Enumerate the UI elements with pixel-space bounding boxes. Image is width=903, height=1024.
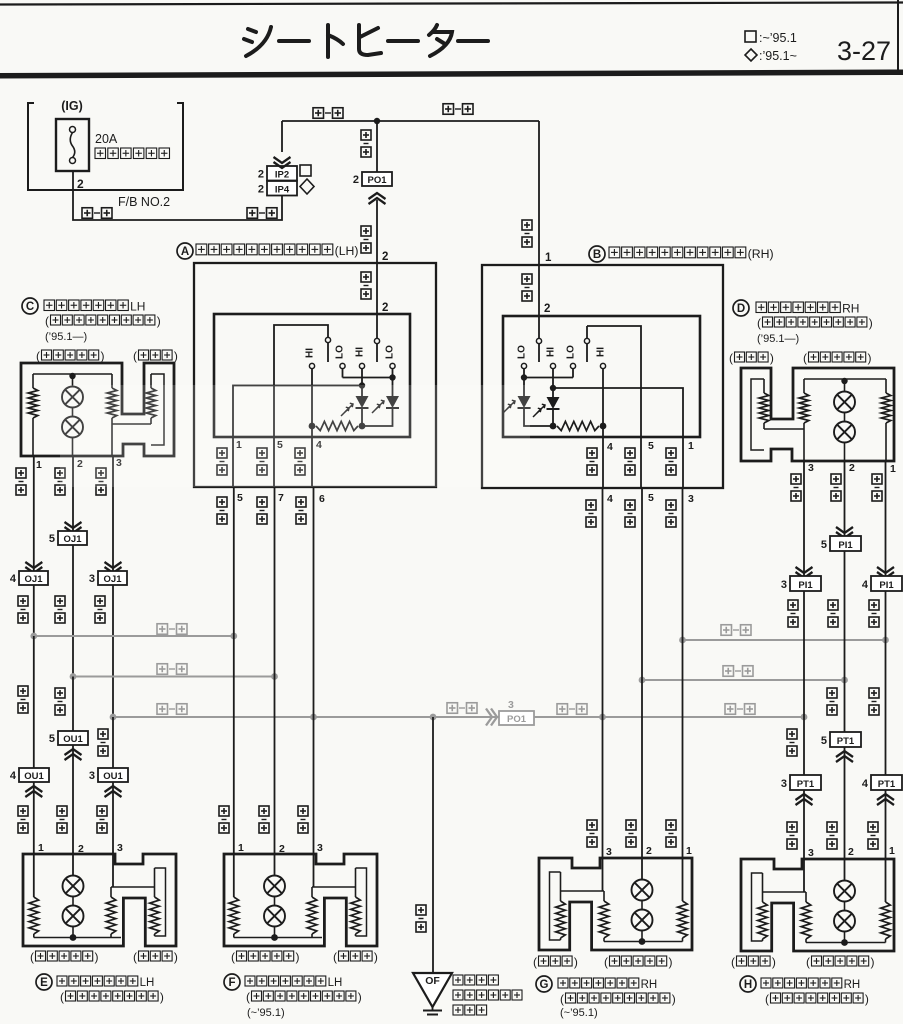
svg-text:3: 3: [781, 778, 787, 790]
heater C link wire: [112, 423, 151, 425]
junction: [841, 939, 848, 946]
arrow into PI1-4: [877, 567, 894, 573]
wire B pin1 gap: [682, 437, 684, 488]
svg-text:2: 2: [77, 177, 84, 191]
legend square ~'95.1: [745, 31, 756, 42]
wire col3 bus to OU1: [112, 717, 114, 768]
label LO rotated: [335, 345, 346, 359]
svg-text:(RH): (RH): [748, 247, 774, 261]
arrow into OJ1-4: [25, 562, 42, 568]
wire color label: [522, 274, 532, 284]
wire col2 to bus: [72, 545, 74, 677]
bottom wire: [34, 937, 121, 939]
wire D pin3 down: [803, 460, 805, 576]
connector PO1 top: [362, 172, 392, 186]
wire feed inside switch B: [538, 265, 540, 338]
wire col1 to bus: [33, 585, 35, 636]
lever pole2 B: [584, 338, 589, 343]
contact HI1: [309, 363, 314, 368]
arrow into PO1: [369, 193, 386, 199]
wire color label: [257, 497, 267, 507]
connector PO1 bus: [499, 711, 534, 725]
cushion left element: [603, 891, 605, 901]
wire LO link: [343, 377, 393, 379]
cushion left element: [33, 854, 35, 897]
back inner wall: [155, 868, 166, 936]
svg-text:4: 4: [862, 778, 869, 790]
arrow into PO1 bus: [486, 709, 492, 726]
cushion right element: [110, 887, 112, 897]
label heater G circled: [536, 976, 552, 992]
switch B outer box: [482, 265, 723, 488]
svg-text:PT1: PT1: [878, 779, 896, 790]
pin3 link wire: [561, 890, 605, 892]
svg-text:2: 2: [382, 251, 388, 263]
heater C back element: [150, 374, 152, 388]
resistor switch B: [550, 423, 557, 430]
contact HI2 B: [600, 363, 605, 368]
svg-text:4: 4: [10, 770, 17, 782]
contact HI1 B: [550, 363, 555, 368]
bus blue-black right: [683, 639, 886, 641]
svg-text:HI: HI: [355, 347, 366, 357]
heater C outline: [21, 363, 174, 456]
cushion right element: [682, 858, 684, 901]
wire color label: [666, 448, 676, 458]
bus label white-black 4: [725, 704, 736, 715]
svg-text:A: A: [181, 246, 189, 258]
svg-text:(: (: [765, 992, 769, 1006]
connector PI1 pin3: [790, 576, 821, 591]
wire col2 PI1 to bus: [844, 551, 846, 680]
wire LO link B: [524, 377, 573, 379]
connector IP2: [267, 166, 297, 181]
svg-text:(: (: [133, 950, 137, 964]
svg-text:LH: LH: [130, 300, 145, 314]
label LO rotated: [566, 345, 577, 359]
label HI rotated: [546, 347, 557, 357]
svg-text:(: (: [731, 955, 735, 969]
switch A inner box: [214, 314, 410, 437]
svg-text:(: (: [604, 955, 608, 969]
wire color label: [18, 806, 28, 816]
svg-text:B: B: [593, 249, 601, 261]
contact HI2: [359, 363, 364, 368]
junction G pin3 bus: [599, 714, 606, 721]
svg-text:): ): [95, 950, 99, 964]
label seat heater RH H: [761, 978, 771, 988]
contact LO2: [390, 363, 395, 368]
wire C pin1 down: [33, 455, 35, 571]
svg-text:H: H: [744, 979, 752, 991]
svg-text:2: 2: [279, 843, 285, 855]
arrow into OU1-3: [105, 786, 122, 792]
svg-text:1: 1: [238, 842, 244, 854]
svg-text:C: C: [26, 301, 34, 313]
thermostat 2: [72, 897, 74, 906]
LED D1 arrows: [345, 404, 353, 412]
wire A col3 down: [313, 487, 315, 854]
svg-text:(IG): (IG): [61, 99, 83, 113]
wire color label: [522, 220, 532, 230]
svg-text:1: 1: [889, 845, 895, 857]
label rear heater (katakana): [95, 148, 106, 159]
bus label white-black: [157, 704, 168, 715]
LED D1: [361, 386, 363, 397]
svg-text:3: 3: [89, 770, 95, 782]
svg-text:): ): [374, 950, 378, 964]
junction HI link B: [550, 385, 556, 391]
wire A pin5 gap: [273, 437, 275, 487]
connector PI1 pin4: [871, 576, 902, 591]
junction heater C: [69, 373, 75, 379]
svg-text:PO1: PO1: [367, 175, 387, 186]
svg-text:3: 3: [117, 842, 123, 854]
svg-text:2: 2: [382, 302, 388, 314]
wire color label: [298, 806, 308, 816]
wire color label: [55, 688, 65, 698]
thermostat D1: [844, 381, 846, 392]
wire color label: [217, 497, 227, 507]
svg-text:3: 3: [781, 579, 787, 591]
svg-text:3: 3: [508, 699, 514, 711]
wire color label: [18, 686, 28, 696]
svg-text:PO1: PO1: [507, 714, 527, 725]
wire B col4 down: [602, 488, 604, 858]
lever pole1 B: [536, 338, 541, 343]
wire color label: [95, 596, 105, 606]
svg-text:1: 1: [545, 252, 552, 264]
svg-text:): ): [669, 955, 673, 969]
junction F pin3 bus: [310, 714, 317, 721]
wire feed inside switch A: [376, 263, 378, 338]
svg-text:(LH): (LH): [335, 244, 359, 258]
wire color label: [828, 600, 838, 610]
label switch A circled: [177, 243, 193, 259]
wire color blue-white label right: [247, 208, 258, 219]
svg-text:4: 4: [607, 441, 613, 453]
svg-text:E: E: [40, 977, 48, 989]
ground triangle OF: [413, 973, 452, 1007]
wire color label: [587, 448, 597, 458]
svg-text:1: 1: [686, 845, 692, 857]
legend diamond '95.1~: [745, 49, 757, 61]
svg-text:5: 5: [237, 492, 243, 504]
svg-text:): ): [672, 992, 676, 1006]
label heater D circled: [733, 300, 749, 316]
wire color label: [295, 448, 305, 458]
heater outline heater H: [741, 859, 894, 951]
back inner wall: [356, 868, 367, 936]
switch B inner box: [503, 316, 700, 437]
contact LO1 B: [521, 363, 526, 368]
fuse element: [70, 127, 76, 133]
title seat heater (katakana): [244, 25, 488, 57]
junction ground bus: [430, 714, 437, 721]
wire ground drop: [432, 717, 434, 973]
bottom wire: [604, 941, 683, 943]
wire bus down to switch B: [538, 121, 540, 265]
svg-text:(: (: [231, 950, 235, 964]
svg-text:PT1: PT1: [837, 736, 855, 747]
svg-text:PI1: PI1: [798, 580, 813, 591]
label seat heater switch LH: [196, 244, 207, 255]
label heater F circled: [224, 974, 240, 990]
heater C top wire: [33, 373, 112, 375]
wire color label: [97, 806, 107, 816]
junction H pin3 bus end: [801, 714, 808, 721]
svg-text:OF: OF: [425, 975, 440, 987]
svg-text:3: 3: [89, 573, 95, 585]
pin3 wire: [602, 858, 604, 891]
svg-text:HI: HI: [596, 347, 607, 357]
thermostat 2: [641, 901, 643, 910]
label heater E circled: [36, 974, 52, 990]
svg-text:(: (: [729, 351, 733, 365]
wire HI link to pin1: [233, 386, 362, 438]
svg-text:D: D: [737, 303, 745, 315]
LED D2 B: [552, 388, 554, 397]
arrow into PT1-3: [796, 794, 813, 800]
junction LO link: [389, 374, 395, 380]
wire col1 bus to OU1: [33, 636, 35, 768]
svg-text:LO: LO: [335, 345, 346, 359]
wire D pin1 down: [885, 460, 887, 576]
cushion right element: [885, 859, 887, 902]
wire PO1 to switch A: [376, 200, 378, 263]
wire col1 bus to PT1: [885, 640, 887, 775]
arrow into PT1-5: [836, 751, 853, 757]
svg-text::~’95.1: :~’95.1: [759, 31, 797, 45]
label LO rotated: [385, 345, 396, 359]
wire fuse to IP connector: [73, 171, 282, 220]
pin3 wire: [112, 854, 114, 887]
label seat heater LH E: [57, 976, 67, 986]
svg-text:1: 1: [688, 440, 694, 452]
thermostat 2: [274, 897, 276, 906]
wire col1 OU1 to E: [33, 782, 35, 854]
svg-text:(: (: [806, 955, 810, 969]
bottom wire: [234, 937, 322, 939]
svg-text:(: (: [560, 992, 564, 1006]
junction: [271, 934, 278, 941]
wire col2 bus to OU1: [72, 677, 74, 732]
cushion right element: [311, 887, 313, 897]
wire color label: [416, 905, 426, 915]
wire color blue-white label right: [443, 104, 454, 115]
wire A pin4 gap: [311, 437, 313, 487]
svg-text:RH: RH: [842, 302, 859, 316]
svg-text:): ): [868, 351, 872, 365]
title underline thick rule: [0, 70, 903, 79]
pin4 wire through box B: [602, 426, 604, 437]
LED D2: [392, 378, 394, 397]
svg-text:3: 3: [317, 842, 323, 854]
LED D1 B arrows: [507, 401, 515, 409]
svg-text:): ): [160, 990, 164, 1004]
svg-text:RH: RH: [641, 979, 658, 991]
svg-text:(: (: [803, 351, 807, 365]
thermostat 1: [72, 854, 74, 876]
label HI rotated: [596, 347, 607, 357]
svg-text:3: 3: [606, 846, 612, 858]
LED D2 arrows: [376, 401, 384, 409]
svg-text:(~’95.1): (~’95.1): [247, 1007, 285, 1019]
IP4 diamond marker: [300, 179, 314, 194]
svg-text:2: 2: [258, 184, 264, 196]
svg-text:): ): [574, 955, 578, 969]
wire color label: [869, 600, 879, 610]
svg-text:): ): [770, 351, 774, 365]
back inner wall: [550, 872, 561, 940]
connector IP4: [267, 181, 297, 196]
svg-text:): ): [358, 990, 362, 1004]
svg-text:1: 1: [36, 459, 42, 471]
svg-text:(: (: [36, 349, 40, 363]
arrow into PI1-5: [836, 527, 853, 533]
wire color label: [361, 272, 371, 282]
LED D2 B arrows: [537, 405, 545, 413]
wire C pin3 down: [112, 455, 114, 571]
svg-text:): ): [871, 955, 875, 969]
label seat heater RH G: [558, 978, 568, 988]
svg-text:1: 1: [38, 842, 44, 854]
thermostat 1: [274, 854, 276, 876]
pin3 wire: [803, 859, 805, 892]
svg-text:5: 5: [49, 733, 55, 745]
wire color label: [587, 820, 597, 830]
svg-text:OJ1: OJ1: [64, 534, 83, 545]
svg-text:(: (: [533, 955, 537, 969]
bus white-black right part: [534, 716, 804, 718]
thermostat 1: [844, 859, 846, 881]
svg-text:OJ1: OJ1: [104, 574, 123, 585]
heater C back inner wall: [151, 374, 164, 445]
thermostat 2: [844, 902, 846, 911]
wire col3 bus to PT1: [803, 717, 805, 775]
watermark faint veil: [60, 385, 530, 487]
label switch B circled: [589, 246, 605, 262]
label HI rotated: [305, 348, 316, 358]
svg-text:2: 2: [78, 843, 84, 855]
arrow into OU1-5: [65, 749, 82, 755]
heater D back element: [763, 379, 765, 393]
label seat heater LH: [44, 300, 55, 311]
wire color label: [586, 500, 596, 510]
svg-text:G: G: [540, 979, 549, 991]
wire color label: [55, 468, 65, 478]
heater D left element: [803, 379, 805, 393]
thermostat C1: [72, 376, 74, 387]
wire color label: [625, 448, 635, 458]
svg-text:7: 7: [278, 492, 284, 504]
svg-text:(: (: [133, 349, 137, 363]
junction LO link B: [521, 374, 527, 380]
wire blue-white top bus: [282, 120, 539, 122]
wire B pin4 gap: [602, 437, 604, 488]
svg-text:LH: LH: [328, 977, 343, 989]
svg-text:5: 5: [821, 539, 827, 551]
arrow into OU1-4: [25, 786, 42, 792]
svg-text:2: 2: [646, 845, 652, 857]
wire color label: [868, 822, 878, 832]
svg-text:PI1: PI1: [879, 580, 894, 591]
wire color label: [666, 820, 676, 830]
bus label blue-black: [157, 624, 168, 635]
pin3 wire: [313, 854, 315, 887]
label LO rotated: [517, 345, 528, 359]
svg-text:2: 2: [849, 462, 855, 474]
wire color label: [96, 468, 106, 478]
wire color label: [98, 729, 108, 739]
svg-text:F/B NO.2: F/B NO.2: [118, 195, 170, 209]
wire color label: [869, 688, 879, 698]
wire IP2 up to bus: [281, 121, 283, 152]
svg-text:): ): [157, 314, 161, 328]
svg-text:HI: HI: [546, 347, 557, 357]
svg-text:PT1: PT1: [797, 779, 815, 790]
svg-text:LO: LO: [517, 345, 528, 359]
pin1 wire through box: [311, 426, 313, 437]
svg-text:(~’95.1): (~’95.1): [560, 1007, 598, 1019]
svg-text:(: (: [60, 990, 64, 1004]
junction: [70, 934, 77, 941]
resistor switch A: [309, 423, 316, 430]
fuse box F/B bracket: [28, 103, 183, 190]
svg-text:): ): [296, 950, 300, 964]
svg-text:2: 2: [258, 169, 264, 181]
wire color label: [217, 448, 227, 458]
svg-text:6: 6: [319, 493, 325, 505]
svg-text:LO: LO: [385, 345, 396, 359]
svg-text:): ): [865, 992, 869, 1006]
wire C pin2 down: [72, 455, 74, 531]
arrow into PI1-3: [796, 567, 813, 573]
heater D back inner wall: [751, 379, 764, 450]
wire color label: [626, 820, 636, 830]
wire color label: [16, 468, 26, 478]
svg-text:2: 2: [353, 174, 359, 186]
svg-text:(: (: [757, 316, 761, 330]
wire col2 bus to PT1: [844, 680, 846, 732]
back element: [355, 868, 357, 897]
svg-text:(’95.1—): (’95.1—): [757, 333, 799, 345]
svg-text:IP2: IP2: [275, 169, 289, 180]
heater D right element: [885, 379, 887, 393]
bus label blue-orange: [723, 666, 734, 677]
fuse 20A rear heater body: [56, 119, 89, 171]
svg-text:(: (: [333, 950, 337, 964]
thermostat 1: [641, 858, 643, 880]
wire color label: [57, 806, 67, 816]
svg-text:OU1: OU1: [24, 771, 44, 782]
back inner wall: [752, 873, 763, 941]
back element: [154, 868, 156, 897]
label HI rotated: [355, 347, 366, 357]
junction HI link: [359, 382, 365, 388]
bus white-black: [113, 716, 499, 718]
svg-text:F: F: [228, 977, 235, 989]
back element: [762, 873, 764, 902]
wire color label: [787, 822, 797, 832]
pin3 link wire: [111, 886, 155, 888]
svg-text:(’95.1—): (’95.1—): [45, 331, 87, 343]
label seat heater RH: [756, 302, 767, 313]
svg-text:OU1: OU1: [103, 771, 123, 782]
back element: [560, 872, 562, 901]
svg-text:3: 3: [688, 493, 694, 505]
arrow into OJ1-5: [65, 522, 82, 528]
